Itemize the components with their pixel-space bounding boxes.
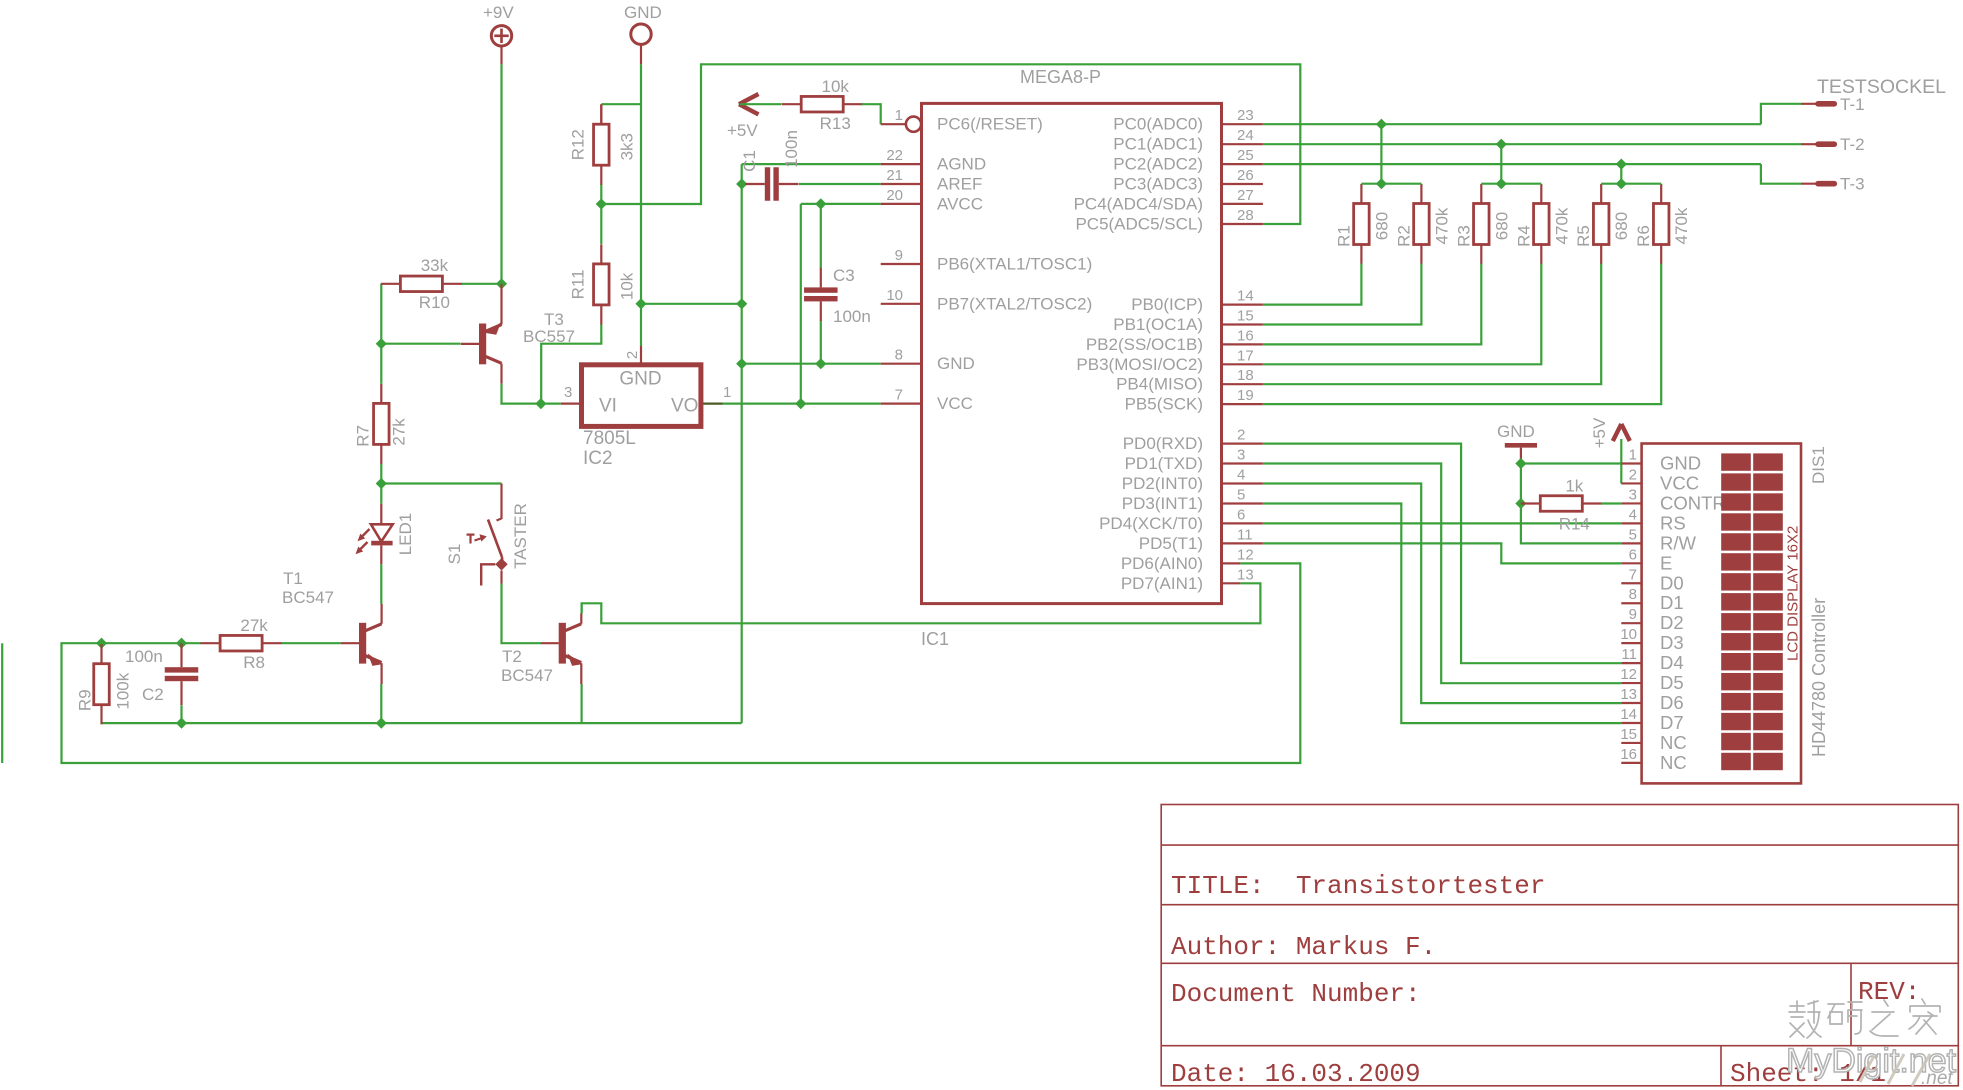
wire left edge stub (1, 643, 3, 763)
resistor R10 33k (381, 256, 462, 312)
pin 6 LCD E (1621, 546, 1672, 573)
wire AGND pin 22 (742, 163, 881, 165)
svg-text:+5V: +5V (1590, 417, 1609, 448)
svg-text:T1: T1 (283, 569, 303, 588)
svg-text:14: 14 (1237, 288, 1254, 305)
svg-text:26: 26 (1237, 167, 1254, 184)
svg-text:100n: 100n (782, 130, 801, 168)
wire GND vertical from supply (640, 64, 642, 303)
svg-text:+5V: +5V (727, 121, 758, 140)
svg-text:7805L: 7805L (583, 428, 636, 449)
svg-text:16: 16 (1237, 327, 1254, 344)
pin 27 PC4(ADC4/SDA) (1074, 187, 1263, 214)
svg-text:PC1(ADC1): PC1(ADC1) (1113, 135, 1203, 154)
LCD cell matrix (1721, 453, 1783, 770)
regulator IC2 7805L (561, 346, 732, 469)
svg-text:NC: NC (1660, 752, 1687, 773)
pin 22 AGND (881, 147, 986, 174)
svg-text:100n: 100n (125, 647, 163, 666)
svg-text:PD4(XCK/T0): PD4(XCK/T0) (1099, 514, 1203, 533)
svg-text:R13: R13 (820, 114, 851, 133)
wire AREF pin 21 to C1 (799, 183, 881, 185)
junction (1376, 178, 1387, 189)
wire GND pin 8 (742, 363, 881, 365)
wire PD0 to D4 (1263, 444, 1621, 664)
svg-text:HD44780 Controller: HD44780 Controller (1809, 598, 1829, 757)
svg-text:C3: C3 (833, 266, 855, 285)
pin 3 LCD CONTR (1621, 486, 1725, 513)
pin 13 PD7(AIN1) (1121, 566, 1254, 593)
wire R12 top to GND net (601, 103, 641, 105)
svg-text:VCC: VCC (1660, 472, 1699, 493)
svg-text:E: E (1660, 552, 1672, 573)
svg-text:19: 19 (1237, 387, 1254, 404)
pin 12 LCD D5 (1620, 666, 1683, 693)
svg-text:D1: D1 (1660, 592, 1684, 613)
svg-text:IC1: IC1 (921, 629, 949, 649)
IC MEGA8-P (microcontroller) (922, 67, 1222, 604)
pin 5 LCD R/W (1621, 526, 1696, 553)
pin 17 PB3(MOSI/OC2) (1076, 347, 1262, 374)
pin 1 inversion bubble (PC6/RESET) (906, 117, 921, 132)
resistor R14 1k (1521, 477, 1602, 534)
svg-text:3: 3 (564, 384, 572, 401)
svg-text:1k: 1k (1565, 477, 1583, 496)
svg-text:9: 9 (895, 247, 903, 264)
svg-text:PD6(AIN0): PD6(AIN0) (1121, 554, 1203, 573)
svg-text:TITLE: Transistortester: TITLE: Transistortester (1171, 871, 1545, 901)
wire PD1 to D5 (1263, 464, 1621, 684)
wire R6 bottom to pin 19 (1263, 264, 1661, 405)
junction (376, 478, 387, 489)
junction (596, 198, 607, 209)
pin 20 AVCC (881, 187, 983, 214)
svg-text:R3: R3 (1454, 225, 1473, 247)
wire PD2 to D6 (1263, 484, 1621, 704)
junction (1376, 119, 1387, 130)
svg-text:16: 16 (1620, 746, 1637, 763)
svg-text:11: 11 (1621, 646, 1637, 663)
pin 15 PB1(OC1A) (1113, 308, 1263, 335)
svg-text:12: 12 (1620, 666, 1637, 683)
wire T3 base (381, 343, 460, 345)
wire VI pin lead (541, 403, 561, 405)
svg-text:GND: GND (619, 369, 661, 390)
svg-text:T-2: T-2 (1840, 135, 1865, 154)
svg-text:PC3(ADC3): PC3(ADC3) (1113, 175, 1203, 194)
svg-text:R5: R5 (1574, 225, 1593, 247)
wire R1 bottom to pin 14 (1263, 264, 1362, 305)
svg-text:1: 1 (1629, 447, 1637, 464)
svg-text:6: 6 (1629, 546, 1637, 563)
wire T3 emitter lead (500, 284, 502, 325)
wire T-1 riser (1380, 124, 1382, 184)
svg-text:AVCC: AVCC (937, 194, 983, 213)
pin 19 PB5(SCK) (1125, 387, 1263, 414)
wire base net R9/C2/R8 (102, 642, 201, 644)
svg-text:MEGA8-P: MEGA8-P (1020, 67, 1101, 87)
svg-text:R6: R6 (1634, 225, 1653, 247)
wire PD7 / IC1 net (582, 583, 1261, 623)
wire R3 bottom to pin 16 (1263, 264, 1481, 345)
pin 1 LCD GND (1621, 447, 1701, 474)
svg-text:680: 680 (1492, 212, 1511, 240)
svg-text:TASTER: TASTER (511, 503, 530, 569)
pin 26 PC3(ADC3) (1113, 167, 1263, 194)
svg-text:4: 4 (1237, 467, 1245, 484)
svg-text:AREF: AREF (937, 175, 982, 194)
wire S1 top net (381, 482, 501, 484)
pin 11 LCD D4 (1621, 646, 1683, 673)
svg-text:T2: T2 (502, 647, 522, 666)
svg-text:D3: D3 (1660, 632, 1684, 653)
wire PD3 to D7 (1263, 504, 1621, 724)
svg-text:C1: C1 (740, 150, 759, 172)
svg-text:13: 13 (1620, 686, 1637, 703)
svg-text:S1: S1 (445, 544, 464, 565)
wire +5V to R13 (740, 103, 781, 105)
svg-text:T-1: T-1 (1840, 95, 1865, 114)
svg-text:10: 10 (886, 287, 903, 304)
svg-text:5: 5 (1629, 526, 1637, 543)
svg-text:R1: R1 (1334, 225, 1353, 247)
svg-text:VO: VO (671, 396, 698, 417)
junction (1616, 159, 1627, 170)
svg-text:VCC: VCC (937, 394, 973, 413)
junction (535, 398, 546, 409)
svg-text:12: 12 (1237, 546, 1254, 563)
svg-text:10: 10 (1620, 626, 1637, 643)
pin 6 PD4(XCK/T0) (1099, 506, 1263, 533)
switch S1 TASTER (445, 484, 530, 586)
svg-text:2: 2 (1237, 427, 1245, 444)
svg-text:REV:: REV: (1858, 977, 1920, 1007)
svg-text:2: 2 (1629, 466, 1637, 483)
display DIS1 LCD HD44780 (1642, 444, 1829, 784)
svg-text:470k: 470k (1552, 207, 1571, 244)
svg-text:Author: Markus F.: Author: Markus F. (1171, 932, 1436, 962)
svg-text:.net: .net (1921, 1068, 1953, 1089)
svg-text:GND: GND (1660, 453, 1701, 474)
wire C3 top (820, 204, 822, 268)
junction (1515, 458, 1526, 469)
junction (736, 178, 747, 189)
svg-text:LCD DISPLAY 16X2: LCD DISPLAY 16X2 (1785, 526, 1802, 661)
svg-text:GND: GND (937, 354, 975, 373)
junction (376, 338, 387, 349)
wire R2 bottom to pin 15 (1263, 264, 1422, 325)
wire R7 top (380, 344, 382, 384)
pin 9 LCD D2 (1621, 606, 1683, 633)
pin T-3 (1801, 175, 1865, 194)
pin 10 LCD D3 (1620, 626, 1683, 653)
svg-text:AGND: AGND (937, 155, 986, 174)
wire R5 bottom to pin 18 (1263, 264, 1601, 385)
junction (736, 298, 747, 309)
svg-text:GND: GND (624, 3, 662, 22)
svg-text:27k: 27k (240, 616, 268, 635)
wire R12 bottom to R11 top (600, 184, 602, 244)
wire GND horizontal mid (641, 303, 742, 305)
transistor T1 BC547 (NPN) (282, 569, 383, 684)
svg-text:BC557: BC557 (523, 327, 575, 346)
pin 14 LCD D7 (1620, 706, 1683, 733)
svg-text:4: 4 (1629, 506, 1637, 523)
junction (176, 638, 187, 649)
svg-text:RS: RS (1660, 512, 1686, 533)
wire PD6 long loop (62, 563, 1301, 763)
svg-text:Document Number:: Document Number: (1171, 979, 1421, 1009)
svg-text:PC6(/RESET): PC6(/RESET) (937, 115, 1043, 134)
wire LED cathode to T1 collector (380, 564, 382, 604)
svg-text:R/W: R/W (1660, 532, 1697, 553)
svg-text:28: 28 (1237, 207, 1254, 224)
pin 24 PC1(ADC1) (1113, 127, 1263, 154)
resistor R5 680 (1574, 184, 1631, 264)
svg-text:R9: R9 (76, 689, 95, 711)
junction (815, 198, 826, 209)
svg-text:+9V: +9V (483, 3, 514, 22)
svg-text:2: 2 (624, 351, 641, 359)
pin 12 PD6(AIN0) (1121, 546, 1254, 573)
svg-text:PB5(SCK): PB5(SCK) (1125, 395, 1203, 414)
svg-text:9: 9 (1629, 606, 1637, 623)
capacitor C3 100n (804, 268, 838, 321)
title block frame (1161, 805, 1958, 1086)
wire +5V to LCD VCC (1620, 439, 1622, 484)
svg-text:R12: R12 (568, 129, 587, 160)
pin 4 LCD RS (1621, 506, 1685, 533)
svg-text:R2: R2 (1394, 225, 1413, 247)
svg-text:PD5(T1): PD5(T1) (1139, 534, 1203, 553)
svg-text:15: 15 (1620, 726, 1637, 743)
svg-text:D2: D2 (1660, 612, 1684, 633)
resistor R13 10k (782, 77, 863, 133)
svg-text:1: 1 (723, 384, 731, 401)
pin 13 LCD D6 (1620, 686, 1683, 713)
svg-text:27k: 27k (389, 418, 408, 446)
svg-text:20: 20 (886, 187, 903, 204)
pin 7 VCC (881, 387, 973, 414)
svg-text:680: 680 (1612, 212, 1631, 240)
junction (1496, 139, 1507, 150)
svg-text:PB0(ICP): PB0(ICP) (1131, 295, 1203, 314)
svg-text:33k: 33k (421, 256, 449, 275)
svg-text:21: 21 (886, 167, 903, 184)
svg-text:25: 25 (1237, 147, 1254, 164)
pin 10 PB7(XTAL2/TOSC2) (881, 287, 1093, 314)
svg-text:R4: R4 (1514, 225, 1533, 247)
pin 23 PC0(ADC0) (1113, 107, 1263, 134)
pin 8 LCD D1 (1621, 586, 1683, 613)
svg-text:PD7(AIN1): PD7(AIN1) (1121, 574, 1203, 593)
wire T3 collector lead (500, 364, 502, 384)
wire R4 bottom to pin 17 (1263, 264, 1541, 365)
pin 1 PC6(/RESET) (895, 107, 1043, 134)
wire T-1 net pin 23 (1263, 123, 1761, 125)
pin 16 LCD NC (1620, 746, 1686, 773)
transistor T2 BC547 (NPN) (501, 613, 582, 685)
resistor R9 100k (76, 644, 133, 724)
svg-text:CONTR: CONTR (1660, 492, 1726, 513)
wire RESET stub (881, 123, 906, 125)
supply +5V (left arrow near R13) (727, 94, 759, 140)
svg-text:8: 8 (895, 347, 903, 364)
svg-text:TESTSOCKEL: TESTSOCKEL (1817, 76, 1946, 98)
wire PD5 to E (1263, 543, 1621, 563)
svg-text:D0: D0 (1660, 572, 1684, 593)
capacitor C2 100n (165, 643, 199, 705)
resistor R2 470k (1394, 184, 1451, 264)
wire +9V vertical (500, 64, 502, 283)
svg-text:100n: 100n (833, 307, 871, 326)
svg-text:PC2(ADC2): PC2(ADC2) (1113, 155, 1203, 174)
svg-text:470k: 470k (1432, 207, 1451, 244)
pin 14 PB0(ICP) (1131, 288, 1263, 315)
pin 2 PD0(RXD) (1123, 427, 1263, 454)
wire AVCC down to VCC (800, 204, 802, 404)
svg-text:D6: D6 (1660, 692, 1684, 713)
svg-text:10k: 10k (617, 272, 636, 300)
wire C3 bottom (820, 321, 822, 364)
svg-text:C2: C2 (142, 685, 164, 704)
wire GND down to R14 (1520, 464, 1522, 504)
wire GND bottom rail (102, 722, 742, 724)
pin 9 PB6(XTAL1/TOSC1) (881, 247, 1093, 274)
wire pair R1R2 top (1361, 183, 1421, 185)
wire PC5 net: R12/R11 node loop to MCU pin 28 (601, 64, 1300, 224)
wire GND main vertical (741, 164, 743, 723)
svg-text:PB6(XTAL1/TOSC1): PB6(XTAL1/TOSC1) (937, 255, 1092, 274)
wire R14 to CONTR (1601, 502, 1621, 504)
svg-text:PB7(XTAL2/TOSC2): PB7(XTAL2/TOSC2) (937, 294, 1092, 313)
pin 4 PD2(INT0) (1122, 467, 1263, 494)
svg-text:680: 680 (1372, 212, 1391, 240)
wire pair R5R6 top (1601, 183, 1661, 185)
supply +9V (483, 3, 514, 64)
pin 21 AREF (881, 167, 983, 194)
wire 7805 GND pin lead (640, 304, 642, 346)
svg-text:PB4(MISO): PB4(MISO) (1116, 375, 1203, 394)
wire T-2 riser (1500, 144, 1502, 184)
svg-text:18: 18 (1237, 367, 1254, 384)
svg-text:PB1(OC1A): PB1(OC1A) (1113, 315, 1203, 334)
resistor R3 680 (1454, 184, 1511, 264)
svg-text:7: 7 (895, 387, 903, 404)
resistor R4 470k (1514, 184, 1571, 264)
svg-text:GND: GND (1497, 422, 1535, 441)
wire VCC pin 7 (723, 403, 881, 405)
pin T-1 (1801, 95, 1865, 114)
resistor R6 470k (1634, 184, 1691, 264)
junction (496, 278, 507, 289)
svg-text:PC0(ADC0): PC0(ADC0) (1113, 115, 1203, 134)
wire R7 bottom (380, 464, 382, 484)
svg-text:23: 23 (1237, 107, 1254, 124)
svg-text:IC2: IC2 (583, 448, 613, 469)
pin 2 LCD VCC (1621, 466, 1699, 493)
junction (1496, 178, 1507, 189)
pin 8 GND (881, 347, 975, 374)
svg-text:NC: NC (1660, 732, 1687, 753)
svg-text:R11: R11 (568, 269, 587, 299)
capacitor C1 100n (745, 167, 798, 201)
svg-text:11: 11 (1237, 526, 1253, 543)
svg-text:27: 27 (1237, 187, 1254, 204)
svg-text:13: 13 (1237, 566, 1254, 583)
wire R10 right to +9V (462, 283, 502, 285)
svg-text:PD1(TXD): PD1(TXD) (1125, 454, 1203, 473)
pin 15 LCD NC (1620, 726, 1686, 753)
svg-text:5: 5 (1237, 487, 1245, 504)
wire T-3 to socket (1761, 164, 1801, 184)
wire R13 to RESET pin 1 (862, 104, 881, 124)
wire GND to LCD pin1 (1521, 462, 1621, 464)
resistor R8 27k (201, 616, 282, 672)
supply +5V (LCD arrow) (1590, 417, 1630, 448)
pin 25 PC2(ADC2) (1113, 147, 1263, 174)
svg-text:17: 17 (1237, 347, 1254, 364)
svg-text:R7: R7 (353, 425, 372, 447)
pin 18 PB4(MISO) (1116, 367, 1263, 394)
wire pair R3R4 top (1481, 183, 1541, 185)
junction (376, 718, 387, 729)
svg-text:24: 24 (1237, 127, 1254, 144)
wire R12 top lead corner (600, 104, 602, 124)
pin 28 PC5(ADC5/SCL) (1075, 207, 1262, 234)
wire LED anode net (380, 484, 382, 504)
resistor R12 3k3 (568, 105, 636, 185)
wire R10 left corner (380, 284, 382, 344)
svg-text:PD0(RXD): PD0(RXD) (1123, 434, 1203, 453)
pin T-2 (1801, 135, 1865, 154)
svg-text:3: 3 (1237, 447, 1245, 464)
svg-text:PC5(ADC5/SCL): PC5(ADC5/SCL) (1075, 215, 1203, 234)
wire T-3 riser (1620, 164, 1622, 184)
wire T1 emitter drop (380, 684, 382, 723)
LED LED1 (356, 504, 416, 565)
svg-text:1: 1 (895, 107, 903, 124)
svg-text:T-3: T-3 (1840, 175, 1865, 194)
wire T-2 net pin 24 (1263, 143, 1801, 145)
junction (176, 718, 187, 729)
ground GND (LCD) (1497, 422, 1537, 464)
wire T-3 net pin 25 (1263, 163, 1761, 165)
svg-text:PB3(MOSI/OC2): PB3(MOSI/OC2) (1076, 355, 1203, 374)
svg-text:22: 22 (886, 147, 903, 164)
wire C2 bottom to rail (180, 705, 182, 723)
svg-text:6: 6 (1237, 506, 1245, 523)
wire T-1 to socket (1761, 104, 1801, 124)
svg-text:14: 14 (1620, 706, 1637, 723)
resistor R11 10k (568, 244, 636, 324)
pin 5 PD3(INT1) (1122, 487, 1263, 514)
svg-text:DIS1: DIS1 (1809, 446, 1828, 484)
wire R8 to T1 base (281, 642, 340, 644)
svg-text:D7: D7 (1660, 712, 1684, 733)
svg-text:R8: R8 (243, 653, 265, 672)
svg-text:PD3(INT1): PD3(INT1) (1122, 494, 1203, 513)
svg-text:BC547: BC547 (282, 588, 334, 607)
svg-text:PC4(ADC4/SDA): PC4(ADC4/SDA) (1074, 194, 1203, 213)
svg-text:R14: R14 (1559, 515, 1590, 534)
svg-text:100k: 100k (114, 672, 133, 709)
svg-text:D5: D5 (1660, 672, 1684, 693)
wire AVCC pin 20 (801, 203, 881, 205)
pin 11 PD5(T1) (1139, 526, 1263, 553)
resistor R1 680 (1334, 184, 1391, 264)
svg-text:470k: 470k (1672, 207, 1691, 244)
